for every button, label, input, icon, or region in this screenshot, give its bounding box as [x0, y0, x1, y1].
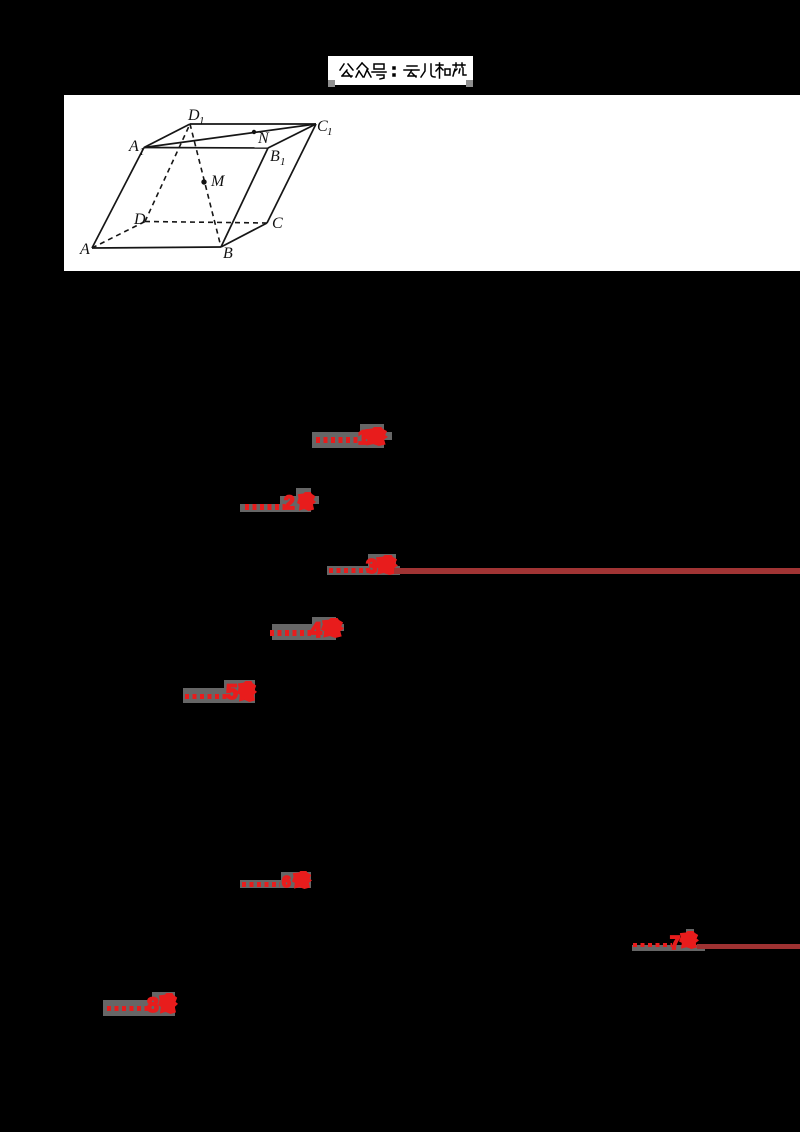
diagonal A1-C1: [144, 124, 316, 148]
svg-text:1: 1: [280, 156, 286, 168]
svg-text:1: 1: [139, 146, 145, 158]
label text 公众号：云儿和花 (drawn strokes): [328, 56, 473, 85]
edge C-C1: [267, 124, 316, 223]
glyph ：: [393, 67, 395, 76]
answer mark 1: [312, 432, 384, 448]
svg-text:B: B: [270, 148, 280, 165]
svg-text:A: A: [79, 241, 90, 258]
highlight label box: [328, 56, 473, 85]
edge D1-A1: [144, 124, 190, 148]
answer mark 5: [183, 688, 255, 703]
parallelepiped figure: [64, 95, 800, 271]
edge B-C: [221, 223, 267, 247]
hidden edge D-D1: [145, 124, 190, 222]
figure panel: [64, 95, 800, 271]
long answer line 2: [697, 944, 800, 949]
svg-text:N: N: [257, 130, 270, 147]
glyph 儿: [421, 64, 435, 77]
svg-text:1: 1: [327, 126, 333, 138]
edge B1-C1: [268, 124, 316, 148]
point N: [252, 130, 256, 134]
hidden edge A-D: [92, 222, 145, 249]
svg-text:A: A: [128, 138, 139, 155]
answer mark 3: [327, 566, 400, 575]
answer mark 6: [240, 880, 311, 888]
glyph 花: [453, 63, 466, 76]
edge A-B: [92, 247, 221, 248]
hidden edge D-C: [145, 222, 267, 224]
svg-text:1: 1: [199, 115, 205, 127]
long answer line 1: [394, 568, 800, 574]
svg-text:D: D: [133, 211, 146, 228]
glyph 和: [436, 63, 450, 78]
answer mark 7: [632, 945, 705, 951]
handle left: [328, 80, 335, 87]
handle right: [466, 80, 473, 87]
svg-text:M: M: [210, 173, 226, 190]
answer mark 8: [103, 1000, 175, 1016]
svg-text:C: C: [272, 215, 283, 232]
glyph 公: [340, 64, 353, 77]
edge A1-B1: [144, 147, 268, 150]
svg-text:B: B: [223, 245, 233, 262]
edge B-B1: [221, 148, 268, 247]
answer mark 4: [272, 624, 336, 640]
glyph 众: [356, 63, 371, 77]
edge A-A1: [92, 148, 144, 249]
hidden segment D1-B: [190, 124, 221, 247]
answer mark 2: [240, 504, 311, 512]
point M: [201, 179, 206, 184]
glyph 号: [372, 64, 386, 79]
edge C1-D1: [190, 123, 316, 125]
glyph 云: [404, 66, 419, 77]
